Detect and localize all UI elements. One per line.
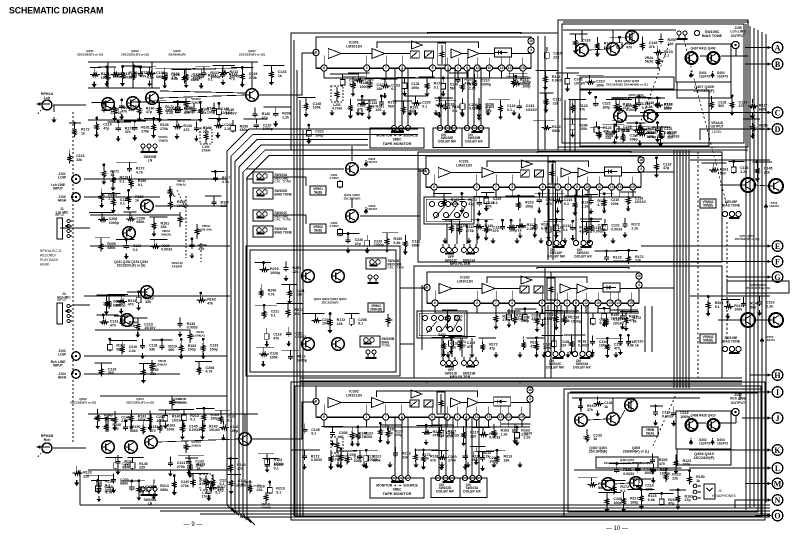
capacitor R213 [593, 101, 598, 107]
wire rail segment [347, 426, 359, 428]
wire rail segment [343, 76, 365, 78]
svg-text:0.1: 0.1 [120, 202, 125, 206]
wire lead [142, 339, 144, 343]
wire rail segment [180, 67, 195, 69]
svg-text:200K(B): 200K(B) [370, 307, 382, 311]
capacitor C145 [612, 129, 617, 135]
wire lead [138, 292, 140, 296]
wire bus mid-right 3 [682, 150, 684, 388]
wire lead [445, 101, 447, 105]
wire drop to IC201 box [574, 100, 576, 152]
label Q106 type [168, 397, 185, 404]
transistor Q407 [686, 52, 698, 64]
wire rail segment [116, 239, 135, 241]
wire lead [380, 96, 382, 100]
wire lead [673, 407, 675, 411]
svg-text:12: 12 [475, 415, 479, 419]
op-amp IC302 LM1011N [313, 386, 533, 420]
wire drop 545 [544, 36, 546, 150]
wire lead [591, 478, 593, 482]
ground [112, 425, 117, 431]
ground [348, 113, 353, 119]
wire lead [142, 364, 144, 368]
resistor R213 [637, 128, 647, 132]
svg-text:H: H [774, 371, 781, 380]
wire dolby drop [587, 305, 589, 351]
resistor C133 [654, 51, 664, 55]
wire lead [138, 102, 140, 106]
ground [602, 208, 607, 214]
svg-text:12: 12 [584, 301, 588, 305]
ground [330, 441, 335, 447]
wire lead [595, 97, 597, 101]
wire lead [176, 103, 178, 107]
wire lead [115, 457, 117, 461]
wire to node B [745, 62, 772, 65]
svg-text:100p: 100p [322, 322, 331, 326]
wire pin stub [609, 306, 611, 313]
resistor C133 [495, 454, 499, 464]
svg-text:4.7k: 4.7k [268, 292, 275, 296]
ground under IC201 row [539, 238, 544, 244]
svg-text:0.0033: 0.0033 [295, 335, 306, 339]
ground [124, 254, 129, 260]
ground [328, 464, 333, 470]
wire bottom bus 2 [160, 510, 770, 512]
ground [639, 504, 644, 510]
wire rail segment [116, 161, 137, 163]
resistor R140 [191, 478, 195, 488]
wire pin stub [541, 306, 543, 313]
wire lead [193, 103, 195, 107]
svg-text:1k: 1k [110, 173, 114, 177]
capacitor R213 [617, 41, 622, 50]
wire lead [641, 37, 643, 41]
capacitor R206 [757, 300, 762, 306]
svg-text:100p: 100p [525, 204, 534, 208]
ground under IC201 row [443, 238, 448, 244]
connector RPH1A head [36, 100, 52, 114]
resistor C220 [350, 431, 354, 441]
svg-text:OUTPUT: OUTPUT [731, 401, 746, 405]
resistor R133 [627, 254, 631, 264]
svg-text:33k: 33k [369, 105, 375, 109]
svg-text:2SC2320(P): 2SC2320(P) [694, 456, 716, 460]
wire lead [330, 450, 332, 454]
wire lead [677, 490, 679, 494]
wire mic jack out [60, 227, 90, 229]
svg-text:7: 7 [495, 301, 497, 305]
svg-text:TONE: TONE [382, 343, 391, 347]
svg-text:4: 4 [557, 185, 559, 189]
resistor C220 [117, 299, 127, 303]
svg-text:6: 6 [433, 185, 435, 189]
svg-text:10/16V: 10/16V [144, 326, 156, 330]
ground [382, 93, 387, 99]
wire rail segment [620, 310, 638, 312]
wire Q201 to IC201 [360, 168, 426, 170]
svg-text:22k(B): 22k(B) [191, 443, 200, 447]
resistor R133 [574, 38, 578, 48]
wire record row rail [566, 67, 660, 69]
wire lead [500, 100, 502, 104]
wire rail segment [150, 238, 168, 240]
label Q901-Q904 type [314, 297, 347, 304]
wire rail segment [542, 334, 564, 336]
capacitor R133 [159, 344, 164, 350]
svg-text:2.2k: 2.2k [224, 127, 231, 131]
ground [181, 422, 186, 428]
ground [96, 488, 101, 494]
wire strip top loop 2 [487, 277, 587, 283]
svg-text:4: 4 [556, 301, 558, 305]
wire rail segment [94, 417, 116, 419]
ground [532, 232, 537, 238]
capacitor R181 [349, 317, 354, 326]
capacitor C208 [113, 461, 118, 470]
wire rail segment [131, 420, 150, 422]
ground [132, 135, 137, 141]
svg-text:2.2k: 2.2k [282, 115, 289, 119]
svg-text:0.1: 0.1 [347, 457, 352, 461]
capacitor R172 [622, 222, 627, 228]
svg-text:LM1011N: LM1011N [346, 393, 362, 397]
wire lead [208, 482, 210, 486]
transistor Q105 [146, 92, 159, 105]
wire lead [457, 73, 459, 77]
box Q407 Q409 group [676, 44, 731, 82]
wire lead [384, 79, 386, 83]
resistor R117 [152, 123, 156, 133]
wire lead [572, 99, 574, 103]
svg-text:TAPE MONITOR: TAPE MONITOR [383, 142, 412, 146]
resistor C210 [312, 319, 322, 323]
capacitor R150 [199, 73, 204, 79]
wire pin stub [366, 71, 368, 78]
inductor L101 [200, 128, 212, 153]
wire lead [536, 312, 538, 316]
wire lead [124, 421, 126, 425]
diode D753 [764, 202, 768, 209]
wire pin stub [611, 190, 613, 197]
wire lead [189, 458, 191, 462]
wire Q153 out [155, 205, 227, 207]
resistor R206 [659, 131, 663, 141]
wire rail segment [282, 349, 300, 351]
svg-text:270k: 270k [177, 465, 185, 469]
wire lead [214, 172, 216, 176]
ground under IC302 row [492, 462, 497, 468]
wire lead [438, 98, 440, 102]
svg-text:HIGH: HIGH [58, 376, 67, 380]
wire lead [474, 74, 476, 78]
svg-text:2SC2320L(F) or (G): 2SC2320L(F) or (G) [126, 400, 154, 404]
ground [346, 248, 351, 254]
svg-text:680k: 680k [552, 129, 560, 133]
wire left nested border 2 [299, 100, 301, 516]
svg-text:Lch: Lch [44, 96, 50, 100]
svg-text:1000p: 1000p [270, 271, 281, 275]
wire J100 to preamp [84, 196, 160, 198]
wire rail segment [123, 211, 136, 213]
svg-text:270k: 270k [160, 127, 168, 131]
ground [115, 469, 120, 475]
svg-text:100p: 100p [207, 111, 216, 115]
ground [590, 349, 595, 355]
svg-text:0.1: 0.1 [133, 248, 138, 252]
wire rail segment [132, 101, 154, 103]
ground [565, 86, 570, 92]
wire strip top loop [538, 152, 631, 154]
svg-text:22k: 22k [257, 488, 263, 492]
ground [229, 488, 234, 494]
wire lead [596, 121, 598, 125]
svg-text:2.2k: 2.2k [349, 82, 356, 86]
svg-text:0.1: 0.1 [208, 77, 213, 81]
wire rail segment [648, 97, 665, 99]
svg-text:100k: 100k [549, 317, 557, 321]
wire bus bottom bend 3 [239, 512, 247, 520]
svg-text:4: 4 [640, 167, 642, 171]
capacitor R117 [651, 467, 656, 473]
wire lead [586, 429, 588, 433]
resistor R219 [571, 103, 575, 113]
wire rail segment [208, 118, 228, 120]
wire lead [752, 119, 754, 123]
svg-text:100k: 100k [365, 81, 373, 85]
wire strip top loop [537, 268, 629, 270]
svg-text:1000p: 1000p [481, 83, 492, 87]
wire bias box out 2 [400, 343, 414, 345]
svg-text:680k: 680k [191, 78, 199, 82]
wire lead [212, 474, 214, 478]
inductor L201 [331, 86, 343, 111]
wire lead [357, 427, 359, 431]
wire IC201 out right [641, 171, 674, 173]
wire rail segment [173, 101, 190, 103]
resistor C220 [179, 343, 183, 353]
svg-text:0.1: 0.1 [446, 106, 451, 110]
wire rail segment [650, 97, 664, 99]
wire rail segment [606, 99, 632, 101]
svg-text:BIAS TONE: BIAS TONE [275, 192, 292, 196]
wire rail segment [195, 360, 212, 362]
wire record stub [612, 30, 614, 42]
wire rail segment [97, 314, 119, 316]
svg-text:2SC2293(T) or (U): 2SC2293(T) or (U) [77, 52, 103, 56]
wire lead [523, 336, 525, 340]
ground [637, 141, 642, 147]
wire right rail E [690, 159, 770, 161]
ground [172, 490, 177, 496]
resistor C221 [102, 169, 106, 179]
wire lead [425, 425, 427, 429]
wire strip top loop [427, 382, 520, 384]
wire rail segment [196, 66, 211, 68]
svg-text:47k: 47k [129, 324, 135, 328]
capacitor C220 [546, 225, 551, 234]
wire lead [443, 337, 445, 341]
diode D754 [760, 336, 764, 343]
resistor R123 [351, 81, 355, 91]
resistor R117 [259, 288, 263, 298]
wire rail segment [434, 97, 453, 99]
svg-text:1S2473: 1S2473 [769, 204, 779, 208]
capacitor C145 [523, 313, 528, 322]
ground [620, 324, 625, 330]
capacitor R117 [191, 107, 196, 113]
ground [570, 235, 575, 241]
svg-text:DOLBY NR: DOLBY NR [546, 366, 564, 370]
wire rail segment [127, 291, 148, 293]
wire drop to IC201 box [564, 100, 566, 152]
wire lead [495, 310, 497, 314]
wire rail segment [336, 450, 357, 452]
svg-text:K: K [774, 446, 781, 455]
capacitor R123 [283, 266, 288, 272]
resistor R206 [516, 224, 526, 228]
wire rail segment [509, 73, 528, 75]
wire Q752 base [718, 319, 741, 321]
wire lead [665, 468, 667, 472]
wire bus center-left 4 [243, 150, 745, 514]
resistor C210 [640, 494, 644, 504]
wire output stub [612, 398, 614, 412]
label Q452 Q454 types [596, 457, 658, 468]
capacitor C119 [186, 459, 191, 465]
switch box DOLBY HX bottom [460, 478, 487, 498]
wire lead [266, 458, 268, 462]
wire lead [169, 457, 171, 461]
svg-text:7: 7 [385, 415, 387, 419]
wire rail segment [337, 233, 359, 235]
wire rail segment [353, 449, 378, 451]
wire lead [574, 34, 576, 38]
svg-text:560: 560 [718, 104, 724, 108]
wire lead [315, 313, 317, 317]
wire lead [624, 218, 626, 222]
wire lead [130, 410, 132, 414]
capacitor R213 [213, 176, 218, 182]
resistor R219 [494, 314, 498, 324]
svg-text:47p: 47p [468, 202, 475, 206]
capacitor R123 [637, 131, 642, 137]
wire rail segment [114, 315, 132, 317]
wire lead [161, 340, 163, 344]
ground [328, 328, 333, 334]
wire to node L [689, 466, 772, 469]
wire rail segment [432, 336, 455, 338]
wire rail segment [486, 449, 506, 451]
wire rail segment [449, 72, 467, 74]
wire rail segment [433, 193, 451, 195]
svg-text:1000p: 1000p [115, 303, 126, 307]
ground [750, 133, 755, 139]
wire lead [121, 341, 123, 345]
transistor Q451 [614, 110, 627, 123]
svg-text:0.0033: 0.0033 [311, 458, 322, 462]
svg-text:100p: 100p [630, 501, 639, 505]
wire lead [591, 335, 593, 339]
ground [425, 91, 430, 97]
svg-text:470: 470 [110, 323, 116, 327]
wire rail segment [654, 467, 682, 469]
wire bus mid-right 5 [688, 150, 690, 388]
svg-text:M: M [774, 479, 782, 488]
resistor R181 [262, 309, 266, 319]
wire stub supply B [107, 414, 109, 432]
transistor Q404 [607, 413, 620, 426]
wire lead [485, 193, 487, 197]
potentiometer VR902 [368, 303, 384, 312]
output section inner border [568, 393, 758, 512]
wire lead [544, 70, 546, 74]
wire rail segment [151, 102, 175, 104]
svg-text:10: 10 [598, 185, 602, 189]
capacitor R117 [463, 454, 468, 460]
wire rail segment [632, 462, 652, 464]
wire lead [120, 294, 122, 298]
ground under IC301 row [512, 110, 517, 116]
wire lead [640, 123, 642, 127]
ground [437, 112, 442, 118]
wire dolby drop [575, 189, 577, 240]
capacitor R140 [570, 225, 575, 231]
capacitor C208 [379, 100, 384, 106]
capacitor R206 [96, 486, 101, 492]
wire lead [660, 34, 662, 38]
resistor C210 [111, 73, 121, 77]
label Q107 type [239, 49, 265, 56]
wire IC301 pin to dolby switch [480, 69, 482, 125]
svg-text:1S2473: 1S2473 [717, 441, 728, 445]
label Q151 Q152 Q153 Q154 type [114, 260, 148, 267]
resistor R181 [248, 484, 252, 494]
wire lead [262, 347, 264, 351]
switch box DOLBY HX top [462, 128, 489, 148]
resistor C119 [378, 427, 382, 437]
bottom inner border [295, 386, 761, 516]
wire lead [164, 68, 166, 72]
wire Q106 to Q108 [158, 439, 239, 442]
svg-text:100p: 100p [210, 348, 219, 352]
svg-text:0.0033: 0.0033 [623, 472, 634, 476]
wire lead [260, 284, 262, 288]
svg-text:47p: 47p [262, 116, 269, 120]
svg-text:3: 3 [511, 185, 513, 189]
ground [304, 111, 309, 117]
wire bus bottom bend 1 [231, 507, 239, 515]
wire lead [266, 454, 268, 458]
wire lead [689, 471, 691, 475]
wire lead [303, 450, 305, 454]
ground [136, 305, 141, 311]
wire pin stub [511, 306, 513, 313]
svg-text:9.1: 9.1 [358, 322, 363, 326]
svg-text:2.2k: 2.2k [483, 455, 490, 459]
wire stub supply B [150, 414, 152, 432]
wire rail segment [231, 67, 254, 69]
wire rail top amp 4 [88, 119, 200, 121]
wire rail segment [155, 68, 181, 70]
wire lead [106, 67, 108, 71]
label Q102 type [70, 397, 96, 404]
wire rail segment [602, 124, 624, 126]
capacitor C220 [517, 104, 522, 110]
wire stub supply [151, 62, 153, 88]
wire rail segment [277, 303, 304, 305]
ground [540, 321, 545, 327]
